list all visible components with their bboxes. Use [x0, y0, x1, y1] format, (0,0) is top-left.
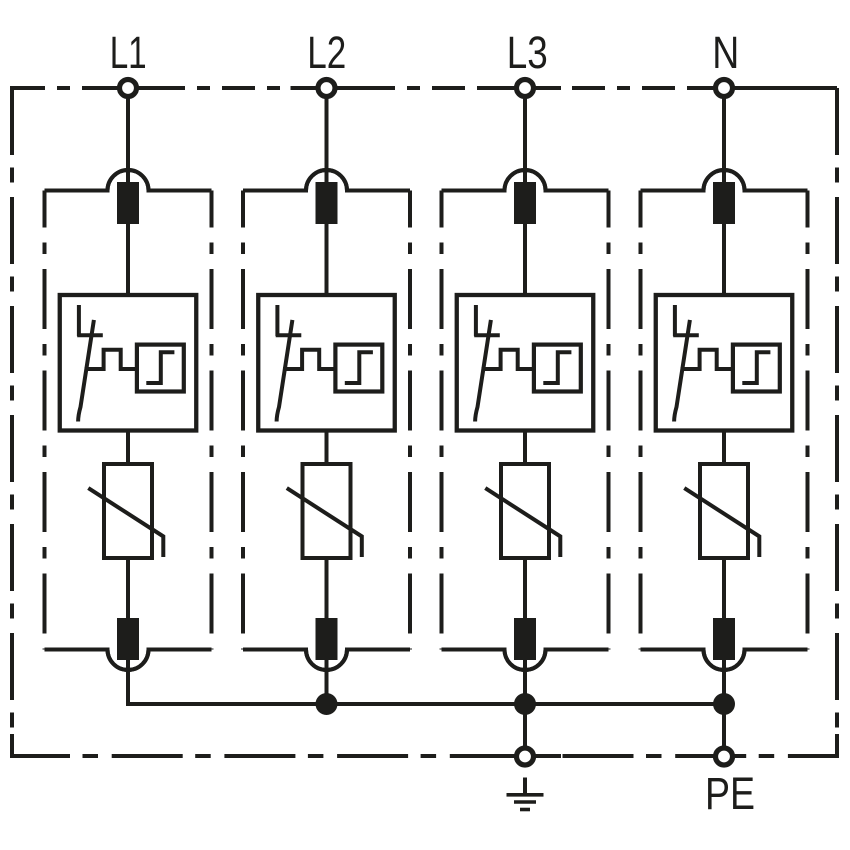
wire: border stub at top terminal x=128.0 [92, 86, 164, 90]
disconnect switch lead, channel L2 [275, 305, 279, 336]
disconnect switch blade, channel N [674, 320, 690, 422]
top plug-in contact arc, channel L2 [306, 170, 347, 191]
wire from bottom plug of L1 to PE bus [126, 658, 130, 706]
wire from F2 to varistor RV2 [325, 429, 329, 467]
enclosure border right (dash-dot) [835, 88, 839, 756]
disconnect switch contact tick, channel L3 [474, 333, 500, 337]
wire from top plug to thermal disconnector F2 [325, 222, 329, 297]
wire from bus to ground terminal [523, 704, 527, 748]
enclosure border top (dash-dot) [12, 86, 837, 90]
channel L1 unit outline top edge with plug notch [45, 170, 212, 191]
wire from bottom plug of L2 to PE bus [325, 658, 329, 704]
ground symbol bar 2 [514, 800, 536, 804]
top plug-in contact arc, channel N [704, 170, 745, 191]
wire from varistor RV3 to bottom plug [523, 556, 527, 620]
wire from F1 to varistor RV1 [126, 429, 130, 467]
wire: border stub top-right corner [733, 86, 837, 90]
monitoring linkage zigzag, channel L3 [482, 350, 535, 369]
top plug-in contact blade, channel N [713, 182, 735, 224]
monitoring indicator box, channel L3 [534, 345, 581, 392]
terminal PE (bottom) [716, 748, 733, 765]
monitoring indicator box, channel L2 [335, 345, 382, 392]
junction node at L3/bus [514, 693, 536, 715]
junction node at L2/bus [316, 693, 338, 715]
ground symbol bar 1 [507, 793, 544, 797]
channel L1 unit outline bottom edge with plug notch [45, 650, 212, 671]
disconnect switch contact tick, channel N [673, 333, 699, 337]
monitoring indicator step symbol, channel N [742, 352, 770, 383]
wire: border stub at top terminal x=724.0 [688, 86, 760, 90]
varistor RV4 body, channel N [700, 464, 748, 558]
top plug-in contact blade, channel L3 [514, 182, 536, 224]
channel L1 unit outline left edge (dashed) [43, 191, 47, 650]
varistor RV3 diagonal stroke, channel L3 [485, 488, 560, 557]
thermal disconnector with monitoring F1 box, channel L1 [60, 295, 197, 431]
wire from bottom plug of N to PE bus [722, 658, 726, 704]
top plug-in contact blade, channel L2 [316, 182, 338, 224]
bottom plug-in contact blade, channel L2 [316, 618, 338, 660]
wire from F4 to varistor RV4 [722, 429, 726, 467]
wire from bottom plug of L3 to PE bus [523, 658, 527, 704]
thermal disconnector with monitoring F2 box, channel L2 [258, 295, 395, 431]
terminal L2 (top) [318, 80, 335, 97]
monitoring indicator step symbol, channel L3 [543, 352, 571, 383]
monitoring indicator box, channel L1 [137, 345, 184, 392]
ground symbol bar 3 [520, 808, 530, 812]
wire from top plug to thermal disconnector F1 [126, 222, 130, 297]
varistor RV3 body, channel L3 [501, 464, 549, 558]
ground symbol stem [523, 778, 527, 795]
terminal L3 (top) [517, 80, 534, 97]
enclosure border bottom (dash-dot) [12, 754, 837, 758]
bottom plug-in contact blade, channel L1 [117, 618, 139, 660]
bottom plug-in contact blade, channel L3 [514, 618, 536, 660]
wire: border stub bottom-left corner [12, 734, 70, 756]
monitoring indicator step symbol, channel L1 [146, 352, 174, 383]
varistor RV2 body, channel L2 [303, 464, 351, 558]
svg-text:L2: L2 [307, 27, 346, 78]
wire: border stub at top terminal x=326.5 [291, 86, 363, 90]
wire from terminal L3 to top plug [523, 99, 527, 186]
wire: border stub at top terminal x=525.0 [489, 86, 561, 90]
bottom plug-in contact arc, channel L3 [505, 650, 546, 671]
wire from F3 to varistor RV3 [523, 429, 527, 467]
varistor RV1 body, channel L1 [104, 464, 152, 558]
terminal L1 (top) [120, 80, 137, 97]
channel N unit outline right edge (dashed) [806, 191, 810, 650]
top plug-in contact blade, channel L1 [117, 182, 139, 224]
wire from terminal L1 to top plug [126, 99, 130, 186]
enclosure border left (dash-dot) [10, 88, 14, 756]
channel N unit outline bottom edge with plug notch [641, 650, 808, 671]
terminal N (top) [716, 80, 733, 97]
top plug-in contact arc, channel L1 [108, 170, 149, 191]
disconnect switch contact tick, channel L2 [276, 333, 302, 337]
channel N unit outline left edge (dashed) [639, 191, 643, 650]
varistor RV4 diagonal stroke, channel N [684, 488, 759, 557]
ground terminal circle [517, 748, 534, 765]
monitoring indicator box, channel N [733, 345, 780, 392]
svg-text:N: N [712, 27, 739, 78]
monitoring indicator step symbol, channel L2 [345, 352, 373, 383]
monitoring linkage zigzag, channel L1 [85, 350, 138, 369]
wire from terminal N to top plug [722, 99, 726, 186]
varistor RV1 diagonal stroke, channel L1 [88, 488, 163, 557]
channel L1 unit outline right edge (dashed) [210, 191, 214, 650]
wire from varistor RV4 to bottom plug [722, 556, 726, 620]
wire: border stub bottom-right corner [790, 734, 837, 756]
wire: border stub at PE terminal [687, 754, 740, 758]
bottom plug-in contact arc, channel L1 [108, 650, 149, 671]
wire from top plug to thermal disconnector F4 [722, 222, 726, 297]
disconnect switch contact tick, channel L1 [77, 333, 103, 337]
monitoring linkage zigzag, channel N [681, 350, 734, 369]
wire: border stub top-left corner [12, 88, 45, 110]
channel L3 unit outline right edge (dashed) [607, 191, 611, 650]
disconnect switch blade, channel L2 [277, 320, 293, 422]
channel N unit outline top edge with plug notch [641, 170, 808, 191]
channel L3 unit outline top edge with plug notch [442, 170, 609, 191]
wire from top plug to thermal disconnector F3 [523, 222, 527, 297]
wire: border stub at ground terminal [489, 754, 561, 758]
disconnect switch lead, channel N [673, 305, 677, 336]
channel L2 unit outline top edge with plug notch [243, 170, 410, 191]
svg-text:PE: PE [705, 768, 755, 819]
svg-text:L1: L1 [110, 27, 147, 78]
wire from bus to PE terminal [722, 704, 726, 748]
disconnect switch lead, channel L1 [77, 305, 81, 336]
disconnect switch blade, channel L1 [78, 320, 94, 422]
junction node at N/bus [713, 693, 735, 715]
channel L2 unit outline right edge (dashed) [408, 191, 412, 650]
varistor RV2 diagonal stroke, channel L2 [287, 488, 362, 557]
wire from varistor RV2 to bottom plug [325, 556, 329, 620]
bottom plug-in contact arc, channel L2 [306, 650, 347, 671]
thermal disconnector with monitoring F4 box, channel N [656, 295, 793, 431]
wire from terminal L2 to top plug [325, 99, 329, 186]
PE bus wire [128, 702, 724, 704]
channel L3 unit outline left edge (dashed) [440, 191, 444, 650]
monitoring linkage zigzag, channel L2 [283, 350, 336, 369]
top plug-in contact arc, channel L3 [505, 170, 546, 191]
channel L2 unit outline bottom edge with plug notch [243, 650, 410, 671]
channel L2 unit outline left edge (dashed) [241, 191, 245, 650]
bottom plug-in contact blade, channel N [713, 618, 735, 660]
thermal disconnector with monitoring F3 box, channel L3 [457, 295, 594, 431]
svg-text:L3: L3 [507, 27, 548, 78]
channel L3 unit outline bottom edge with plug notch [442, 650, 609, 671]
bottom plug-in contact arc, channel N [704, 650, 745, 671]
wire from varistor RV1 to bottom plug [126, 556, 130, 620]
disconnect switch blade, channel L3 [475, 320, 491, 422]
disconnect switch lead, channel L3 [474, 305, 478, 336]
